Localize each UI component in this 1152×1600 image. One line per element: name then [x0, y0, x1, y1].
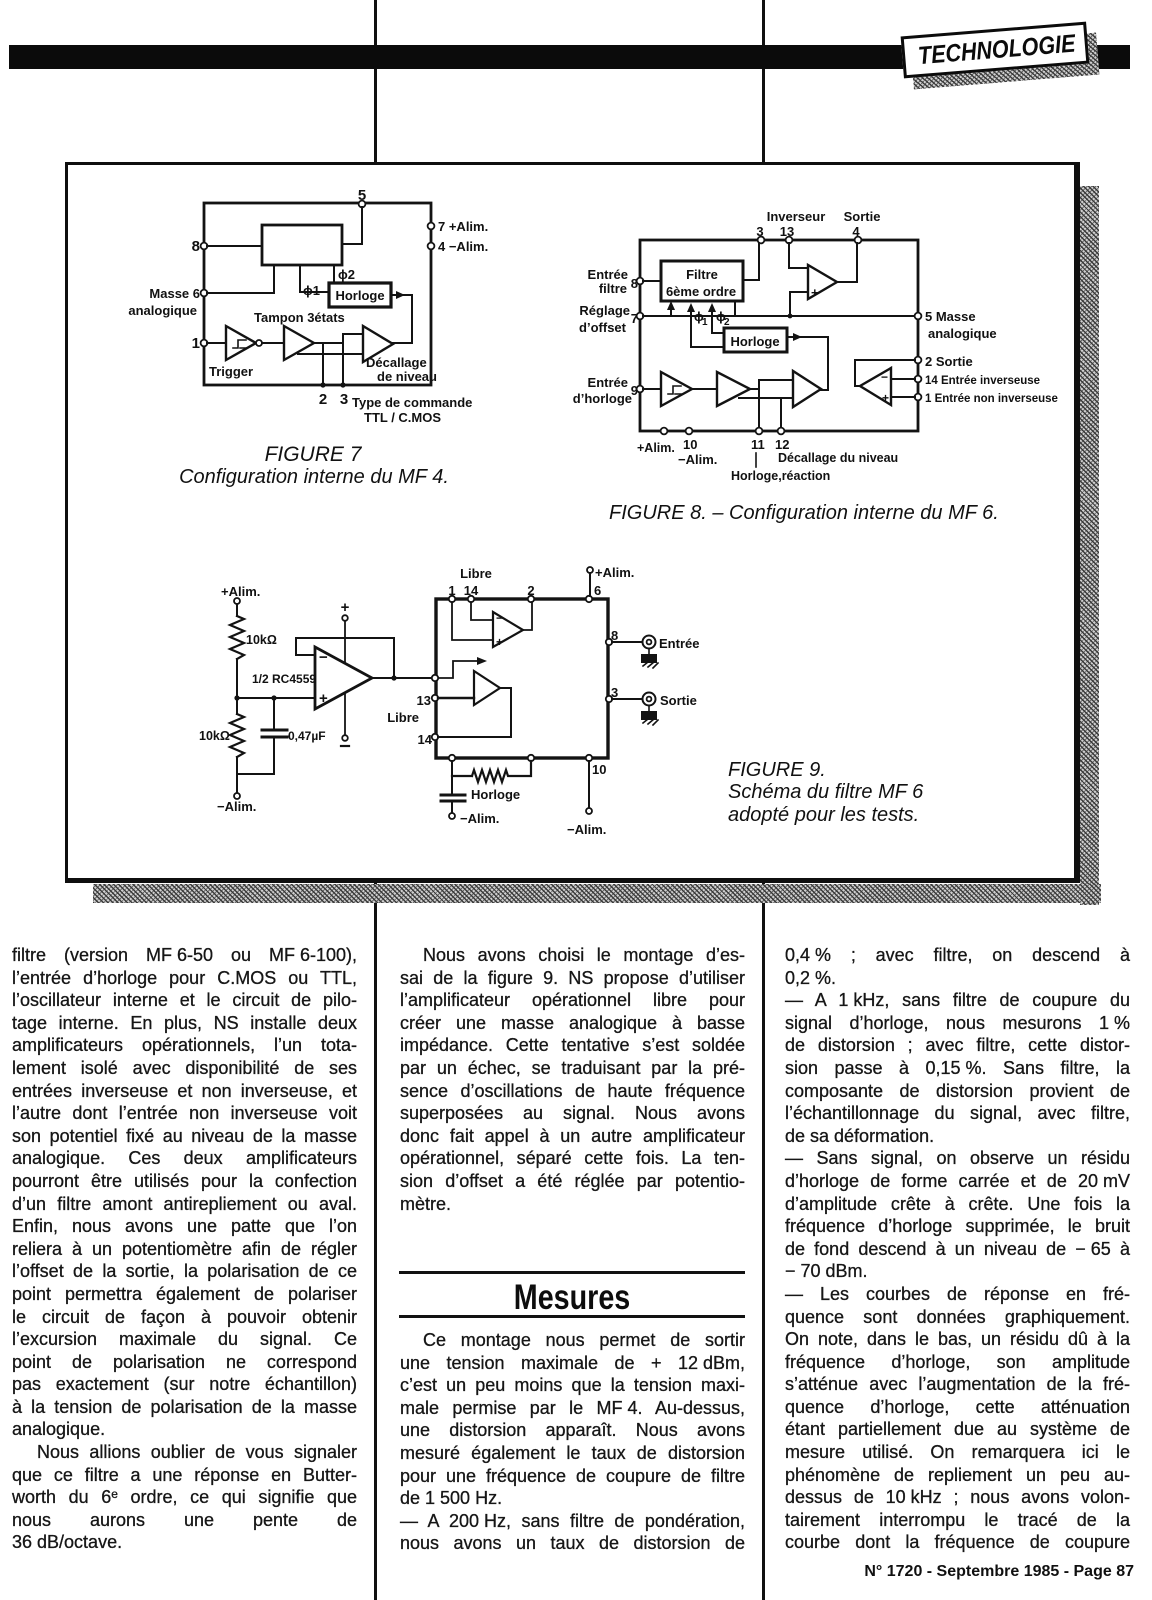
svg-text:−: − [881, 370, 888, 384]
svg-text:1: 1 [192, 335, 200, 352]
wire filtre output to pin 3 [743, 243, 759, 280]
figure frame shadow right [1080, 186, 1099, 905]
svg-text:2 Sortie: 2 Sortie [925, 354, 973, 369]
wire non-inverting input to analog ground [788, 292, 808, 318]
output buffer op-amp (reversed) [860, 368, 891, 405]
resistor R2 10k [199, 714, 244, 757]
svg-text:14: 14 [418, 732, 433, 747]
pin 3 [756, 224, 764, 243]
caption FIGURE 8 [609, 502, 999, 524]
svg-text:2: 2 [319, 391, 327, 408]
bottom pin a [449, 755, 455, 761]
svg-text:+Alim.: +Alim. [221, 584, 260, 599]
label Inverseur [767, 209, 826, 224]
column divider line (left, bottom segment) [374, 879, 377, 1600]
wire buffer output with step MF6 [750, 380, 793, 389]
svg-text:adopté pour les tests.: adopté pour les tests. [728, 804, 919, 826]
svg-text:d’offset: d’offset [579, 320, 627, 335]
svg-text:10: 10 [592, 762, 606, 777]
wire node to R2 [236, 698, 238, 714]
wire pin9 to schmitt [643, 388, 661, 390]
phi1 wire with arrow [687, 303, 724, 347]
pin 4 [852, 224, 861, 243]
wire pin3 to Sortie connector [612, 698, 642, 700]
column divider line (left, top segment) [374, 0, 377, 164]
wire R1 to node [236, 659, 238, 698]
caption FIGURE 7 [179, 443, 449, 488]
capacitor clock [441, 795, 465, 813]
feedback wire to - input [296, 638, 394, 678]
svg-text:+: + [882, 391, 889, 405]
svg-text:Sortie: Sortie [660, 693, 697, 708]
wire filtre bottom-right to ground rail [734, 303, 736, 315]
bottom pin b [528, 755, 534, 761]
svg-text:2: 2 [724, 317, 730, 328]
svg-text:1 Entrée non inverseuse: 1 Entrée non inverseuse [925, 393, 1058, 405]
TECHNOLOGIE logo box [901, 22, 1090, 79]
bottom pin 10 [586, 755, 607, 777]
pin 1 Entree non inverseuse [915, 393, 1058, 405]
svg-text:Décallage: Décallage [366, 355, 427, 370]
svg-text:ϕ1: ϕ1 [303, 283, 320, 298]
figure frame shadow bottom [93, 884, 1101, 903]
pin 8 [192, 238, 208, 255]
top black banner bar [9, 45, 1130, 69]
node junction bias [234, 695, 239, 700]
pin 8 right [606, 628, 618, 645]
column divider line (right, top segment) [762, 0, 765, 164]
-Alim terminal bottom left [217, 793, 256, 814]
input node on left edge [432, 675, 438, 681]
svg-text:Horloge: Horloge [471, 787, 520, 802]
svg-text:Réglage: Réglage [579, 303, 630, 318]
filter block Filtre 6eme ordre [661, 261, 743, 301]
wire to pin 2 [320, 343, 325, 388]
svg-text:Filtre: Filtre [686, 267, 718, 282]
clock resistor Horloge [452, 761, 531, 802]
svg-text:Horloge: Horloge [335, 288, 384, 303]
svg-text:de niveau: de niveau [377, 369, 437, 384]
svg-text:Horloge,réaction: Horloge,réaction [731, 469, 830, 483]
svg-text:−Alim.: −Alim. [567, 822, 606, 837]
wire op-amp output to MF6 [372, 677, 433, 679]
TECHNOLOGIE logo shadow [911, 33, 1100, 90]
wire pin14 to inverting input [891, 378, 915, 380]
page footer [700, 1563, 1134, 1581]
label Libre top [460, 566, 492, 581]
svg-text:11: 11 [751, 437, 765, 452]
svg-text:Libre: Libre [460, 566, 492, 581]
svg-text:0,47µF: 0,47µF [288, 729, 326, 743]
wire Horloge output loop [391, 291, 412, 343]
capacitor C1 0,47uF [237, 695, 326, 774]
svg-text:−: − [319, 649, 328, 666]
wire to pin 12 [780, 398, 782, 428]
svg-text:FIGURE 9.: FIGURE 9. [728, 759, 826, 781]
inner op-amp B [474, 671, 500, 705]
wire +Alim to pin 6 [589, 573, 591, 596]
Sortie connector [643, 693, 697, 709]
bottom pin 10 -Alim [678, 428, 717, 467]
pin 4 -Alim [428, 239, 489, 254]
svg-text:7 +Alim.: 7 +Alim. [438, 219, 488, 234]
wire A output to pin 2 [523, 602, 532, 630]
svg-text:Horloge: Horloge [730, 334, 779, 349]
internal block (oscillator) [262, 225, 342, 265]
wire R2 to -Alim [236, 757, 238, 793]
wire pin13 to op-amp inverting input [789, 243, 808, 268]
pin 14 left [418, 732, 439, 747]
pin 5 [358, 187, 366, 207]
column divider line (right, bottom segment) [762, 879, 765, 1600]
svg-text:−Alim.: −Alim. [678, 452, 717, 467]
wire pin14 to A inverting [471, 602, 493, 620]
pin 2 Sortie [915, 354, 973, 369]
svg-text:Sortie: Sortie [844, 209, 881, 224]
resistor R1 10k [230, 616, 277, 659]
svg-text:10: 10 [683, 437, 697, 452]
svg-text:ϕ2: ϕ2 [338, 267, 355, 282]
label Type de commande TTL/C.MOS [352, 395, 472, 425]
svg-text:FIGURE 8. – Configuration inte: FIGURE 8. – Configuration interne du MF … [609, 502, 999, 524]
svg-text:filtre: filtre [599, 281, 627, 296]
wire pin10 to -Alim [588, 761, 590, 808]
clock box Horloge [329, 283, 391, 307]
svg-text:analogique: analogique [128, 303, 197, 318]
svg-text:12: 12 [775, 437, 789, 452]
pin 13 left [417, 693, 439, 708]
level shifter triangle MF6 [793, 371, 821, 407]
pin 2 top [527, 583, 534, 602]
analog ground rail pin7 to pin5 [643, 315, 915, 317]
pin 7 +Alim [428, 219, 489, 234]
svg-text:Entrée: Entrée [659, 636, 699, 651]
body text column 2 lower [400, 1329, 745, 1555]
pin 13 top [780, 224, 794, 243]
ground Entree [641, 649, 658, 668]
label Sortie top [844, 209, 881, 224]
svg-text:TTL / C.MOS: TTL / C.MOS [364, 410, 441, 425]
body text column 2 [400, 944, 745, 1215]
+Alim terminal top left [221, 584, 260, 604]
pin 14 Entree inverseuse [915, 375, 1040, 387]
schmitt trigger MF6 [661, 372, 692, 406]
pin 5 Masse analogique [915, 309, 997, 341]
svg-text:−Alim.: −Alim. [217, 799, 256, 814]
wire bias node to op-amp + input [237, 697, 315, 699]
svg-text:Entrée: Entrée [588, 375, 628, 390]
svg-text:+: + [319, 690, 328, 707]
op-amp inverter [808, 265, 837, 300]
wire schmitt to buffer MF6 [692, 388, 717, 390]
wire phi1 [300, 265, 329, 298]
svg-text:Libre: Libre [387, 710, 419, 725]
pin 1 top [448, 583, 455, 602]
svg-text:FIGURE 7: FIGURE 7 [265, 443, 363, 466]
svg-text:4 −Alim.: 4 −Alim. [438, 239, 488, 254]
pin 14 top [464, 583, 479, 602]
svg-text:10kΩ: 10kΩ [199, 729, 230, 743]
svg-text:Entrée: Entrée [588, 267, 628, 282]
feedback junction [391, 675, 396, 680]
svg-text:3: 3 [340, 391, 348, 408]
wire lower input [298, 353, 363, 355]
bottom pin 11 [751, 428, 765, 452]
bottom pin 12 [775, 428, 789, 452]
svg-text:d’horloge: d’horloge [573, 391, 632, 406]
clock flow arrow inside [437, 657, 487, 678]
wire pin8 to block [207, 245, 262, 247]
op-amp - supply stub [341, 694, 349, 746]
clock output wire to shifter [787, 333, 828, 390]
svg-text:+Alim.: +Alim. [637, 441, 675, 455]
wire pin5 to internal block [342, 207, 362, 244]
svg-text:Décallage du niveau: Décallage du niveau [778, 451, 898, 465]
pin 1 [192, 335, 208, 352]
wire pin13 to B input [438, 697, 474, 699]
pin 7 Reglage d'offset [579, 303, 643, 335]
svg-text:14 Entrée inverseuse: 14 Entrée inverseuse [925, 375, 1040, 387]
phi2 wire with arrow [708, 303, 730, 333]
pin labels 2 and 3 [319, 391, 348, 408]
wire pin8 to filtre [643, 280, 661, 282]
pin 6 top [586, 583, 601, 602]
-Alim terminal bottom center [449, 811, 499, 826]
trigger schmitt triangle [209, 326, 262, 379]
figure frame box [65, 162, 1080, 883]
wire pin1 to trigger [207, 342, 226, 344]
wire pin2 to output buffer [855, 360, 915, 386]
SCHEMATICS SVG [65, 163, 1075, 879]
offset arrow into filter [667, 301, 675, 316]
svg-text:Configuration interne du MF 4.: Configuration interne du MF 4. [179, 466, 449, 488]
wire to pin 3 [340, 343, 345, 388]
-Alim terminal bottom right [567, 808, 606, 837]
svg-text:Masse 6: Masse 6 [149, 286, 200, 301]
IC outline MF4 [204, 203, 431, 385]
+Alim terminal top right [587, 565, 634, 580]
level shifter triangle Decallage [363, 326, 437, 384]
svg-text:1/2 RC4559: 1/2 RC4559 [252, 672, 316, 686]
body text column 3 [785, 944, 1130, 1554]
clock box Horloge MF6 [724, 328, 787, 352]
IC outline MF6 [640, 240, 918, 431]
wire pin8 to Entree connector [612, 641, 642, 643]
wire op-amp output to pin 4 [837, 243, 857, 282]
svg-text:Tampon 3états: Tampon 3états [254, 310, 345, 325]
svg-text:10kΩ: 10kΩ [246, 633, 277, 647]
wire phi2 [334, 265, 355, 283]
inner op-amp A (libre) [493, 611, 523, 649]
pin 8 Entree filtre [588, 267, 644, 296]
wire to pin 11 [758, 380, 760, 428]
svg-text:−: − [496, 611, 503, 625]
buffer triangle Tampon 3 etats [254, 310, 345, 360]
caption FIGURE 9 [728, 759, 924, 826]
pin 6 Masse analogique [128, 286, 207, 318]
Mesures heading [400, 1278, 745, 1318]
wire pin1 to A non-inverting [452, 602, 493, 640]
svg-text:8: 8 [192, 238, 200, 255]
ground Sortie [641, 706, 658, 725]
svg-text:Inverseur: Inverseur [767, 209, 826, 224]
svg-text:6: 6 [594, 583, 601, 598]
svg-text:Type de commande: Type de commande [352, 395, 472, 410]
svg-text:−Alim.: −Alim. [460, 811, 499, 826]
wire pin6 to block bottom [207, 265, 274, 293]
svg-text:13: 13 [417, 693, 431, 708]
svg-text:analogique: analogique [928, 326, 997, 341]
tick to Horloge reaction [755, 453, 757, 467]
svg-text:+Alim.: +Alim. [595, 565, 634, 580]
label Decallage du niveau [778, 451, 898, 465]
svg-text:Schéma du filtre MF 6: Schéma du filtre MF 6 [728, 781, 924, 803]
IC outline MF6 filter [436, 599, 608, 758]
op-amp + supply stub [341, 599, 350, 663]
label Libre left [387, 710, 419, 725]
pin 3 right [606, 685, 618, 702]
label Horloge reaction [731, 469, 830, 483]
svg-text:6ème ordre: 6ème ordre [666, 284, 736, 299]
wire bottom pin to cap [451, 761, 453, 793]
svg-text:+: + [341, 599, 350, 616]
wire buffer output with step [314, 334, 363, 343]
lower input wire MF6 [739, 397, 793, 399]
svg-text:5 Masse: 5 Masse [925, 309, 976, 324]
svg-text:1: 1 [702, 317, 708, 328]
Mesures heading rules [399, 1271, 745, 1274]
svg-text:Trigger: Trigger [209, 364, 253, 379]
Entree connector [643, 636, 700, 652]
wire +Alim to R1 [236, 604, 238, 616]
buffer triangle MF6 [717, 372, 750, 406]
bottom pin +Alim [637, 428, 675, 455]
wire pin1 to non-inverting input [891, 396, 915, 398]
svg-text:+: + [496, 635, 503, 649]
wire trigger to buffer [262, 342, 284, 344]
op-amp 1/2 RC4559 [252, 647, 372, 709]
body text column 1 [12, 944, 357, 1554]
pin 9 Entree d'horloge [573, 375, 644, 406]
feedback B output to pin 14 [438, 688, 511, 737]
svg-text:+: + [811, 285, 819, 300]
